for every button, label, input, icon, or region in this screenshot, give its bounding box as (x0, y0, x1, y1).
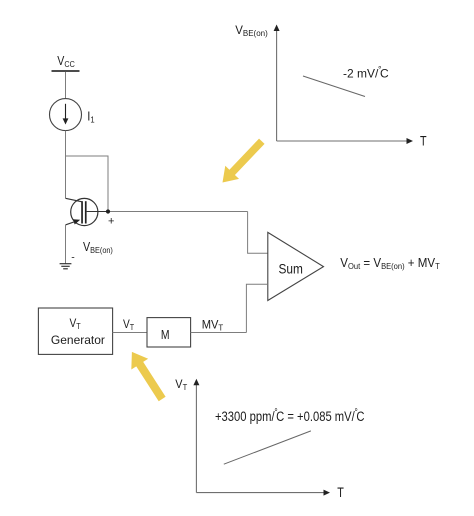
svg-text:VT: VT (123, 318, 134, 332)
svg-text:T: T (420, 133, 427, 148)
svg-text:VBE(on): VBE(on) (83, 240, 113, 255)
svg-text:-2 mV/°C: -2 mV/°C (343, 65, 389, 81)
svg-text:-: - (71, 252, 75, 264)
svg-text:VBE(on): VBE(on) (235, 25, 268, 38)
svg-text:Generator: Generator (51, 333, 105, 347)
svg-text:Sum: Sum (279, 261, 303, 277)
svg-text:VCC: VCC (57, 54, 75, 69)
svg-text:+: + (108, 216, 114, 228)
svg-text:VT: VT (175, 379, 187, 392)
svg-text:VT: VT (70, 317, 81, 331)
svg-text:+3300 ppm/°C = +0.085 mV/°C: +3300 ppm/°C = +0.085 mV/°C (215, 407, 364, 425)
svg-text:I1: I1 (87, 109, 95, 125)
svg-text:M: M (161, 328, 170, 342)
svg-text:VOut = VBE(on) + MVT: VOut = VBE(on) + MVT (340, 256, 440, 272)
svg-text:T: T (337, 485, 344, 500)
svg-text:MVT: MVT (202, 319, 224, 332)
